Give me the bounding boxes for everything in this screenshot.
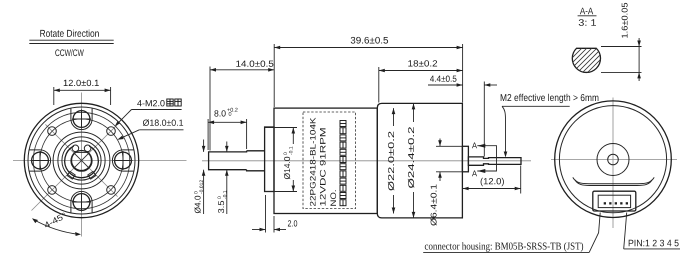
dim 14.0±0.5	[210, 61, 274, 151]
dim 8.0 +0.2/0	[208, 108, 247, 150]
M2 hole SW	[48, 186, 57, 195]
rear boss Ø6.4	[462, 146, 468, 172]
screw head N	[73, 111, 90, 128]
dim 39.6±0.5	[274, 37, 462, 107]
centerline diagonal NE-SW	[32, 124, 118, 210]
pilot boss Ø14	[265, 127, 274, 192]
label 4-45 deg with arc leader	[32, 212, 81, 236]
boss circle	[33, 112, 129, 208]
clip tab left	[67, 171, 75, 179]
label plate dashed	[303, 112, 356, 209]
screw E cross	[114, 151, 133, 170]
screw pocket N	[71, 108, 92, 130]
dim Ø14.0 0/-0.1 rotated	[265, 128, 297, 192]
leader to connector housing note	[589, 213, 600, 253]
fake CJK char 2	[175, 99, 181, 106]
screw pocket E	[112, 150, 133, 171]
M2 hole NE	[107, 127, 116, 136]
output shaft with flat	[209, 151, 265, 171]
screw S cross	[72, 193, 91, 212]
flange outer circle	[24, 103, 138, 217]
screw head S	[73, 194, 90, 211]
M2 hole SE	[107, 186, 116, 195]
section label A-A	[578, 8, 597, 26]
centerline horizontal	[13, 160, 187, 162]
section cut A-A marks	[472, 143, 497, 177]
motor can	[377, 103, 462, 217]
bolt circle Ø18	[40, 119, 123, 202]
dim Ø24.4±0.2 rotated	[408, 103, 415, 217]
flange ring circle	[28, 107, 135, 214]
screw head E	[115, 152, 132, 169]
connector pins	[604, 202, 628, 204]
shaft D-flat chord	[76, 151, 88, 153]
dim Ø6.4±0.1 rotated	[430, 139, 462, 226]
centerline vertical	[612, 98, 614, 229]
centerline shaft axis	[202, 160, 531, 162]
hub inner circle	[62, 141, 101, 180]
end-cap band upper line	[573, 177, 654, 183]
screw W cross	[31, 151, 50, 170]
retaining clip outer arc	[65, 146, 99, 178]
dim 12.0±0.1	[54, 80, 111, 105]
fake CJK char 1	[167, 99, 173, 106]
connector inner	[598, 195, 630, 207]
note connector housing	[423, 242, 589, 252]
centerline horizontal	[551, 159, 677, 161]
rear hub circle	[597, 144, 629, 176]
rear ring circle	[559, 106, 666, 213]
rear center hole	[608, 154, 619, 165]
hub circle	[58, 137, 105, 184]
end-cap band lower line	[575, 180, 652, 186]
label Ø18.0±0.1	[117, 119, 183, 139]
rear shaft stepped	[468, 157, 521, 165]
connector outer	[593, 191, 636, 211]
shaft X cross line 1	[74, 153, 89, 168]
note CCW/CW	[55, 49, 84, 56]
note M2 effective length	[501, 94, 599, 158]
D-shaft section outline with hatch	[560, 20, 610, 110]
gearbox body	[274, 108, 377, 213]
label CJK company column	[340, 121, 346, 206]
M2 hole NW	[48, 127, 57, 136]
label text NO.	[330, 190, 336, 205]
label 4-M2.0 (with CJK)	[115, 99, 182, 126]
dim (12.0)	[463, 166, 521, 194]
note Rotate Direction	[29, 30, 113, 44]
dim Ø22.0±0.2 rotated	[388, 108, 395, 213]
screw head W	[32, 152, 49, 169]
clip end lobe left	[72, 145, 79, 152]
label text 22PG2418-BL-104K	[310, 118, 316, 206]
dim 4.4±0.5	[428, 76, 497, 157]
label text 12VDC 91RPM	[320, 128, 326, 205]
shaft circle with flat cross	[72, 151, 92, 171]
centerline diagonal NW-SE	[45, 124, 117, 196]
dim 3.5 0/-0.1 rotated	[218, 142, 229, 215]
dim 2.0	[252, 195, 297, 233]
clip end lobe right	[84, 145, 91, 152]
screw pocket W	[29, 150, 51, 171]
rear outer circle	[555, 101, 672, 218]
leader to PIN note	[624, 213, 627, 249]
screw N cross	[72, 110, 91, 129]
note PIN numbers	[624, 240, 680, 249]
dim 18±0.2	[379, 60, 463, 102]
retaining clip inner arc	[71, 151, 92, 171]
centerline vertical	[81, 93, 83, 237]
dim Ø4.0 0/-0.012 rotated	[194, 140, 205, 215]
clip tab right	[88, 171, 96, 179]
hub boss circle Ø12	[53, 132, 110, 189]
shaft X cross line 2	[74, 153, 89, 168]
dim 1.6±0.05 rotated	[601, 3, 642, 81]
screw pocket S	[71, 191, 92, 213]
